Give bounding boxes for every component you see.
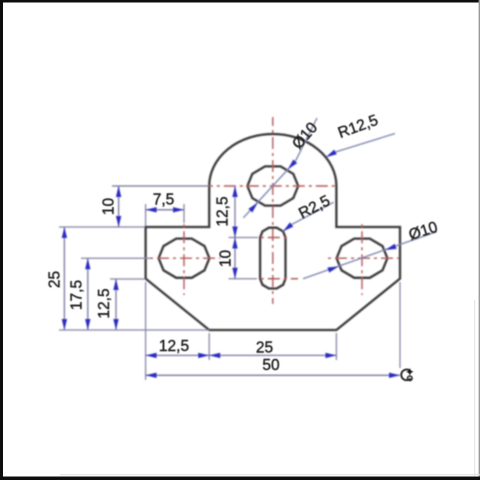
centerline vertical left hole [183, 223, 185, 295]
dim 12,5 bottom arrows [146, 353, 210, 358]
dim 10 center arrows [232, 238, 237, 279]
svg-text:12,5: 12,5 [159, 338, 189, 355]
extension line shoulder left [59, 226, 145, 228]
dim 7,5 arrows [146, 207, 184, 212]
dim 12,5 center arrows [232, 186, 237, 238]
dim 12,5 bottom line [146, 354, 210, 356]
svg-text:12,5: 12,5 [215, 196, 232, 226]
dim 50 line [146, 374, 400, 376]
centerline horizontal left hole [149, 257, 220, 259]
extension line left hole center up [183, 204, 185, 223]
svg-text:7,5: 7,5 [153, 192, 175, 209]
extension line right edge [399, 282, 401, 368]
extension line bottom-25 right [335, 333, 337, 360]
extension line left edge lower [145, 282, 147, 380]
svg-text:R12,5: R12,5 [336, 112, 381, 142]
leader R2,5 arrow [283, 222, 293, 231]
hole right (Ø10) [337, 239, 388, 278]
svg-text:10: 10 [218, 250, 235, 268]
leader Ø10 right arrows [327, 244, 396, 273]
svg-text:R2,5: R2,5 [296, 192, 333, 222]
leader Ø10 top arrows [248, 160, 297, 213]
cursor ring [401, 369, 410, 380]
hole top (Ø10) [247, 166, 298, 205]
cursor diamond [406, 368, 414, 376]
dim 12,5 left line [115, 279, 117, 330]
dim 50 arrows [146, 373, 400, 378]
dim 17,5 arrows [85, 258, 90, 330]
leader Ø10 top line [243, 118, 317, 218]
dim 10 top-left arrows [116, 186, 121, 227]
leader R12,5 arrow [326, 150, 337, 158]
hole left (Ø10) [159, 239, 210, 278]
dim 25 left arrows [62, 227, 67, 330]
svg-text:Ø10: Ø10 [407, 219, 440, 244]
centerline vertical top hole + slot [272, 117, 274, 304]
centerline slot bottom arc [257, 278, 298, 280]
centerline slot top arc [257, 237, 289, 239]
dim 10 top-left line [118, 186, 120, 227]
svg-text:50: 50 [262, 357, 280, 374]
centerline horizontal top hole [209, 185, 336, 187]
cursor small circle [408, 376, 413, 381]
dim 25 left line [63, 227, 65, 330]
extension line side-hole height left [81, 257, 150, 259]
leader R2,5 line [283, 202, 334, 231]
dim 25 bottom line [209, 354, 336, 356]
leader R12,5 line [332, 134, 396, 155]
dim 12,5 center line [234, 186, 236, 238]
extension line chamfer-start left [110, 278, 145, 280]
svg-text:12,5: 12,5 [96, 288, 113, 318]
extension line left edge upper [145, 204, 147, 226]
dim 7,5 line [146, 209, 184, 211]
part outline [146, 134, 400, 330]
extension line slot top-arc center [229, 237, 259, 239]
svg-text:17,5: 17,5 [69, 280, 86, 310]
dim 12,5 left arrows [113, 279, 118, 330]
dim 25 bottom arrows [209, 353, 336, 358]
centerline vertical right hole [361, 223, 363, 295]
centerline horizontal right hole [327, 257, 399, 259]
extension line bottom-25 left [208, 333, 210, 360]
leader Ø10 right line [303, 232, 437, 279]
svg-text:10: 10 [101, 198, 118, 216]
extension line hole-center height left [112, 185, 209, 187]
dim 10 center line [234, 238, 236, 279]
svg-text:25: 25 [256, 340, 273, 357]
slot (R2,5) [260, 228, 285, 289]
svg-text:25: 25 [47, 271, 64, 288]
extension line bottom left [59, 329, 209, 331]
extension line slot bottom-arc center [229, 278, 258, 280]
dim 17,5 line [87, 258, 89, 330]
